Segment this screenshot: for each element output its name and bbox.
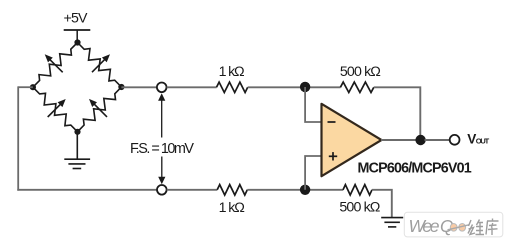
wire output node to Vout terminal <box>425 139 450 141</box>
strain-gauge resistor (bridge bottom-right arm) <box>78 87 122 132</box>
wire V+ terminal to R1 <box>167 86 217 88</box>
junction dot output node <box>415 135 425 145</box>
watermark WeeQoo text <box>409 216 470 236</box>
ground (bridge) <box>64 132 90 169</box>
F.S. measurement arrow (up) <box>158 93 165 137</box>
wire R4 to ground <box>372 190 392 218</box>
svg-text:MCP606/MCP6V01: MCP606/MCP6V01 <box>358 161 472 177</box>
strain-gauge resistor (bridge top-left arm) <box>33 43 78 88</box>
resistor R4 500 kOhm (to ground) <box>343 185 372 195</box>
label VOUT <box>467 132 489 147</box>
label 500 kOhm (feedback) <box>340 64 381 80</box>
svg-text:+5V: +5V <box>64 11 89 27</box>
wire feedback resistor to output node <box>374 87 421 140</box>
svg-text:1 kΩ: 1 kΩ <box>219 64 245 80</box>
resistor R3 500 kOhm (feedback) <box>340 82 373 92</box>
watermark Chinese characters <box>468 219 499 236</box>
wire bridge right node to V+ terminal <box>121 86 156 88</box>
wire R1 to inverting node <box>248 86 341 88</box>
terminal node V- (bottom input) <box>157 185 167 195</box>
resistor R1 1 kOhm (top) <box>217 82 248 92</box>
wire inverting node down to op-amp minus input <box>305 87 321 122</box>
label 1 kOhm (bottom) <box>219 200 245 216</box>
wire R2 to non-inverting node <box>247 189 343 191</box>
power +5V supply bar <box>64 30 91 43</box>
label 500 kOhm (to ground) <box>339 199 380 215</box>
svg-text:F.S. = 10mV: F.S. = 10mV <box>130 141 194 157</box>
label F.S. = 10mV <box>130 141 194 157</box>
svg-text:OUT: OUT <box>476 137 490 146</box>
wire left wall vertical <box>17 86 19 190</box>
bridge top node junction <box>74 39 80 45</box>
F.S. measurement arrow (down) <box>158 157 165 185</box>
junction dot inverting input node <box>300 82 310 92</box>
strain-gauge resistor (bridge top-right arm) <box>78 43 122 88</box>
svg-text:Wee: Wee <box>409 216 440 236</box>
terminal node V+ (top input) <box>157 83 167 93</box>
ground (output divider) <box>381 218 403 227</box>
resistor R2 1 kOhm (bottom) <box>217 185 247 195</box>
label 1 kOhm (top) <box>219 64 245 80</box>
wire bridge left node to left wall <box>18 86 33 88</box>
wire V- terminal to R2 <box>167 189 218 191</box>
wire bottom rail left segment <box>17 189 156 191</box>
label MCP606/MCP6V01 <box>358 161 472 177</box>
junction dot non-inverting input node <box>300 185 310 195</box>
bridge left node junction <box>30 84 36 90</box>
op-amp U1 MCP606/MCP6V01 <box>322 104 382 176</box>
strain-gauge resistor (bridge bottom-left arm) <box>33 87 78 132</box>
svg-text:500 kΩ: 500 kΩ <box>340 64 381 80</box>
wire op-amp output <box>381 139 416 141</box>
svg-text:1 kΩ: 1 kΩ <box>219 200 245 216</box>
bridge bottom node junction <box>74 129 80 135</box>
terminal node Vout <box>450 135 460 145</box>
svg-text:500 kΩ: 500 kΩ <box>339 199 380 215</box>
bridge right node junction <box>118 84 124 90</box>
label +5V <box>64 11 89 27</box>
watermark WeeQoo box <box>404 212 503 237</box>
wire non-inverting node up to op-amp plus input <box>305 156 321 190</box>
